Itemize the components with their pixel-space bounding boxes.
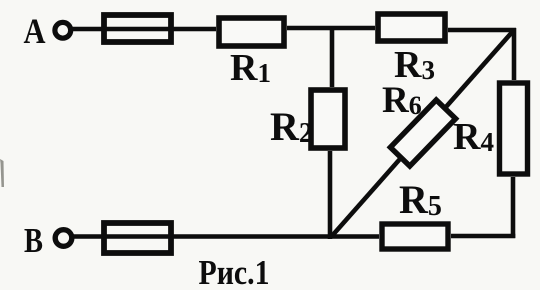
resistor box (unlabeled, series with A) <box>104 15 171 42</box>
wire diagonal R6 branch: bottom node to top-right corner <box>331 30 514 237</box>
wire bottom: R5 to bottom-right corner <box>451 234 515 239</box>
wire bottom: B terminal to R5 <box>72 234 379 239</box>
resistor box (unlabeled, series with B) <box>104 223 171 253</box>
resistor R2 box <box>311 90 345 148</box>
wire top: A terminal to R1 <box>71 27 216 32</box>
clipped glyph artifact at left edge <box>0 159 4 187</box>
wire: top-right corner down to R4 <box>512 28 517 80</box>
resistor R1 box <box>219 18 284 46</box>
wire top: R1 to R3 <box>287 26 375 31</box>
svg-text:B: B <box>24 221 43 260</box>
resistor R5 box <box>382 224 448 249</box>
wire top: R3 to top-right corner <box>448 28 516 33</box>
resistor R4 box <box>500 83 528 174</box>
wire: R2 bottom to bottom node <box>328 151 333 239</box>
terminal B circle <box>55 230 72 247</box>
terminal A circle <box>55 22 71 38</box>
wire: R4 bottom to bottom-right corner <box>511 177 516 238</box>
wire: top node down to R2 <box>330 26 335 87</box>
resistor R6 box (rotated on diagonal) <box>390 100 455 166</box>
svg-text:Рис.1: Рис.1 <box>199 253 270 290</box>
resistor R3 box <box>378 14 445 41</box>
svg-text:A: A <box>24 11 46 51</box>
